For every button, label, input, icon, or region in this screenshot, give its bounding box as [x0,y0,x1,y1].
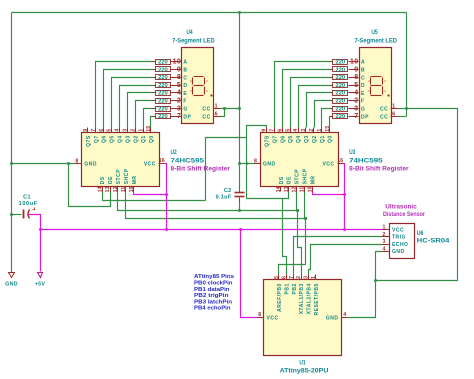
svg-text:220: 220 [336,67,346,73]
svg-text:1: 1 [215,104,218,110]
wire GND to C1 [12,214,22,216]
sensor U6 HC-SR04 ultrasonic [382,224,415,259]
wire U2 Q3 to resistor [128,93,153,128]
svg-text:3: 3 [354,105,358,112]
wire U3 Q2 to resistor [315,101,331,128]
svg-text:Q3: Q3 [304,135,310,143]
wire C2 to STCP rail [239,202,241,211]
svg-text:11: 11 [121,187,127,193]
svg-text:3: 3 [177,105,181,112]
svg-text:CC: CC [380,107,388,113]
svg-text:3: 3 [383,239,386,245]
svg-text:6: 6 [277,129,283,132]
svg-text:220: 220 [158,106,168,112]
wire U3 Q3 to resistor [307,93,331,128]
svg-text:1: 1 [317,129,323,132]
svg-text:220: 220 [158,99,168,105]
svg-text:7: 7 [270,129,276,132]
svg-text:13: 13 [105,186,111,192]
svg-text:PB4 echoPin: PB4 echoPin [194,306,231,312]
svg-text:220: 220 [336,91,346,97]
svg-text:D: D [361,83,365,89]
svg-text:220: 220 [336,60,346,66]
display U4 7-Segment LED [182,48,221,124]
svg-text:XTAL1/PB3: XTAL1/PB3 [299,283,305,314]
wire U3 Q4 to resistor [299,86,331,128]
svg-text:Q2: Q2 [133,135,139,143]
svg-text:DP: DP [361,114,369,120]
svg-text:F: F [361,99,365,105]
svg-text:220: 220 [336,99,346,105]
svg-text:1: 1 [392,104,395,110]
junction GND drop / U3 GND [238,162,241,165]
svg-text:74HC595: 74HC595 [171,157,205,164]
svg-text:5: 5 [107,129,113,132]
svg-text:9: 9 [83,129,89,132]
svg-text:A: A [361,60,365,66]
svg-text:220: 220 [336,106,346,112]
note text ATtiny85 pin assignments [194,274,234,312]
svg-text:0.1uF: 0.1uF [216,195,232,201]
svg-text:MR: MR [310,176,316,185]
svg-text:U4: U4 [186,29,193,36]
wire U5 CC pin6 to GND drop [399,116,407,118]
svg-text:Q5: Q5 [110,135,116,143]
svg-text:3: 3 [123,129,129,132]
svg-text:SHCP: SHCP [303,168,309,184]
wire U3 Q7 to resistor [275,62,331,128]
wire U4 CC pin6 tie [221,109,225,117]
svg-text:STCP: STCP [116,169,122,185]
svg-text:1: 1 [311,276,317,279]
power symbol GND [9,273,15,278]
svg-text:11: 11 [300,187,306,193]
svg-text:ECHO: ECHO [392,242,408,248]
svg-text:ATtiny85-20PU: ATtiny85-20PU [280,368,329,375]
svg-text:F: F [183,99,187,105]
wire +5V to U2 VCC pin16 [165,164,167,230]
svg-text:1: 1 [138,129,144,132]
wire U3 GND pin to GND drop [240,163,255,165]
resistor R5 220 [153,91,182,97]
svg-text:PB2 trigPin: PB2 trigPin [194,293,229,299]
svg-text:U3: U3 [349,149,356,156]
junction VCC rail / ATtiny riser [239,228,242,231]
wire U2 Q6 to resistor [104,70,153,128]
wire U3 Q1 to resistor [322,109,331,128]
svg-text:4: 4 [354,90,358,97]
resistor R27 220 [331,106,359,112]
svg-text:C: C [183,75,187,81]
wire U3 Q6 to resistor [283,70,331,128]
svg-text:7: 7 [354,113,358,120]
svg-text:220: 220 [158,67,168,73]
svg-text:6: 6 [282,276,288,279]
svg-text:C2: C2 [224,188,232,194]
junction GND rail / OE tie [67,162,70,165]
svg-text:14: 14 [276,186,282,192]
power symbol +5V [38,273,43,278]
resistor R8 220 [153,114,182,121]
svg-text:4: 4 [343,312,346,318]
wire U2 Q7 to resistor [96,62,153,128]
svg-text:U1: U1 [299,359,306,366]
svg-text:12: 12 [292,186,298,192]
capacitor C1 100uF polarized [24,208,36,219]
junction C2 / latch rail [238,209,241,212]
svg-text:15: 15 [146,126,152,132]
wire GND tie to U2 OE [69,164,111,207]
wire +5V from C1 down to +5V symbol [29,215,41,272]
svg-text:B: B [361,68,365,74]
svg-text:DS: DS [279,176,285,184]
svg-text:9: 9 [262,129,268,132]
svg-text:STCP: STCP [295,169,301,185]
junction data branch crossing [246,162,248,164]
wire +5V down to ATtiny VCC [241,230,258,318]
svg-text:5: 5 [177,82,181,89]
svg-text:10: 10 [129,186,135,192]
svg-text:7: 7 [91,129,97,132]
wire GND left border [11,13,13,273]
svg-text:OE: OE [287,176,293,184]
svg-text:GND: GND [84,162,97,168]
wire data down to ATtiny PB1 [283,199,287,275]
wire GND top border [12,12,407,14]
svg-text:D: D [183,83,187,89]
svg-text:C: C [361,75,365,81]
svg-text:XTAL2/PB4: XTAL2/PB4 [307,283,313,314]
wire latch rail down to ATtiny PB3 [298,211,302,275]
svg-text:4: 4 [383,246,386,252]
svg-text:U6: U6 [417,230,424,237]
wire GND middle drop to C2 [239,13,241,193]
svg-text:5: 5 [354,82,358,89]
svg-text:16: 16 [337,158,343,164]
svg-text:5: 5 [285,129,291,132]
resistor R7 220 [153,106,182,112]
svg-text:+5V: +5V [35,282,46,288]
svg-text:8-Bit Shift Register: 8-Bit Shift Register [171,167,231,173]
svg-text:PB1 dataPin: PB1 dataPin [194,287,230,293]
wire +5V tie to U3 MR [313,192,345,195]
svg-text:220: 220 [158,75,168,81]
resistor R1 220 [153,60,182,66]
svg-text:VCC: VCC [144,162,156,168]
wire U2 Q5 to resistor [112,78,153,128]
wire GND right side down to bottom [376,109,458,281]
resistor R22 220 [331,67,359,74]
svg-text:AREF/PB0: AREF/PB0 [277,283,283,312]
wire U5 CC pin1 to GND drop [399,108,407,110]
svg-text:RESET/PB5: RESET/PB5 [314,283,320,315]
wire U2 Q0 to resistor [151,117,153,128]
svg-text:Q6: Q6 [280,135,286,143]
svg-text:Ultrasonic: Ultrasonic [385,204,417,210]
svg-text:GND: GND [326,316,339,322]
junction GND left border / U2 GND rail [10,162,13,165]
svg-text:6: 6 [215,111,218,117]
svg-text:VCC: VCC [267,316,279,322]
svg-text:VCC: VCC [322,162,334,168]
svg-text:2: 2 [383,232,386,238]
svg-text:220: 220 [158,60,168,66]
svg-text:4: 4 [115,129,121,132]
svg-text:3: 3 [301,129,307,132]
svg-text:8: 8 [177,74,181,81]
svg-text:E: E [361,91,365,97]
svg-text:G: G [183,107,187,113]
svg-text:GND: GND [392,249,405,255]
svg-text:GND: GND [263,162,276,168]
wire +5V horizontal rail [41,229,382,231]
svg-text:PB0 clockPin: PB0 clockPin [194,281,233,287]
svg-text:G: G [361,107,365,113]
junction +5V rail / +5V symbol [39,228,42,231]
svg-text:100uF: 100uF [19,201,38,207]
svg-text:7-Segment LED: 7-Segment LED [172,39,215,45]
svg-text:3: 3 [304,276,310,279]
junction clock rail / U3 SHCP [304,217,307,220]
svg-text:Q0: Q0 [328,135,334,143]
svg-text:DS: DS [100,176,106,184]
junction U2 MR tie / VCC riser [165,193,168,196]
svg-text:CC: CC [202,107,210,113]
svg-text:4: 4 [177,90,181,97]
svg-text:CC: CC [202,114,210,120]
svg-text:220: 220 [336,83,346,89]
svg-text:220: 220 [336,114,346,120]
field Ultrasonic Distance Sensor of U6 [383,204,426,218]
svg-text:Q0: Q0 [149,135,155,143]
svg-text:8: 8 [258,312,261,318]
junction GND left border / C1 [10,213,13,216]
svg-text:5: 5 [274,276,280,279]
svg-text:Q1: Q1 [320,135,326,143]
junction latch rail / U3 STCP / PB3 [296,209,299,212]
resistor R26 220 [331,99,359,105]
svg-text:7: 7 [289,276,295,279]
svg-text:220: 220 [158,114,168,120]
svg-text:ATtiny85 Pins: ATtiny85 Pins [194,274,234,280]
svg-text:Q5: Q5 [288,135,294,143]
resistor R3 220 [153,75,182,82]
wire +5V to U3 VCC pin16 [344,164,345,230]
svg-text:6: 6 [392,111,395,117]
svg-text:2: 2 [177,98,181,105]
svg-text:Q7S: Q7S [265,135,271,147]
svg-text:Q6: Q6 [102,135,108,143]
svg-text:Q1: Q1 [141,135,147,143]
svg-text:PB3 latchPin: PB3 latchPin [194,299,233,305]
svg-text:Q3: Q3 [125,135,131,143]
wire U2 Q1 to resistor [144,109,153,128]
svg-text:8-Bit Shift Register: 8-Bit Shift Register [349,167,409,173]
wire U4 CC pin1 to GND drop [221,108,240,110]
svg-text:Q7: Q7 [94,135,100,143]
wire clock rail down to ATtiny PB0 [279,219,306,275]
wire latchPin net U2 STCP rail [118,192,298,211]
svg-text:Distance Sensor: Distance Sensor [383,212,426,218]
svg-text:220: 220 [336,75,346,81]
svg-text:Q4: Q4 [296,135,302,143]
IC U3 74HC595 8-bit shift register [255,128,344,192]
svg-text:SHCP: SHCP [124,168,130,184]
junction U5 CC / GND right drop [405,107,408,110]
7-segment digit glyph of U5 [371,77,383,96]
svg-text:7: 7 [177,113,181,120]
svg-text:PB2: PB2 [292,283,298,294]
svg-text:4: 4 [293,129,299,132]
wire data branch to U3 Q7S [247,126,267,199]
wire U3 STCP riser [296,192,298,211]
junction GND top border / middle drop [238,11,241,14]
svg-text:PB1: PB1 [284,283,290,294]
svg-text:14: 14 [97,186,103,192]
svg-text:MR: MR [132,176,138,185]
resistor R2 220 [153,67,182,74]
wire U3 SHCP riser [304,192,306,219]
svg-text:A: A [183,60,187,66]
svg-text:8: 8 [354,74,358,81]
svg-text:12: 12 [113,186,119,192]
junction U4 CC pins [223,107,226,110]
resistor R4 220 [153,83,182,89]
7-segment digit glyph of U4 [193,77,205,96]
resistor R21 220 [331,60,359,66]
wire GND to ATtiny pin4 [348,281,376,318]
junction GND bottom right [374,279,377,282]
wire +5V tie to U2 MR [134,192,167,195]
svg-text:8: 8 [75,158,78,164]
MCU U1 ATtiny85-20PU [258,275,348,356]
svg-text:220: 220 [158,91,168,97]
svg-text:2: 2 [296,276,302,279]
wire data branch to U3 OE stub [247,192,289,199]
wire echoPin U6 ECHO to ATtiny PB4 [309,245,382,275]
svg-text:1: 1 [383,225,386,231]
svg-text:Q7: Q7 [272,135,278,143]
svg-text:2: 2 [354,98,358,105]
svg-text:VCC: VCC [392,227,404,233]
svg-text:Q4: Q4 [118,135,124,143]
svg-text:Q7S: Q7S [86,135,92,147]
svg-text:13: 13 [284,186,290,192]
svg-text:10: 10 [308,186,314,192]
svg-text:220: 220 [158,83,168,89]
svg-text:OE: OE [108,176,114,184]
wire U2 Q2 to resistor [136,101,153,128]
svg-text:6: 6 [99,129,105,132]
wire data branch up and over [206,138,247,201]
wire clockPin net U2 SHCP rail [126,192,306,219]
wire trigPin U6 TRIG to ATtiny PB2 [294,237,382,275]
wire dataPin net from U2 DS [103,192,206,201]
svg-text:DP: DP [183,114,191,120]
svg-text:9: 9 [354,66,358,73]
junction U4 CC / GND drop [238,107,241,110]
resistor R6 220 [153,99,182,105]
svg-text:74HC595: 74HC595 [349,157,383,164]
svg-text:TRIG: TRIG [392,235,406,241]
svg-text:2: 2 [309,129,315,132]
svg-text:B: B [183,68,187,74]
resistor R28 220 [331,114,359,121]
junction VCC rail / U2 riser [165,228,168,231]
svg-text:HC-SR04: HC-SR04 [417,237,450,244]
svg-text:GND: GND [5,282,18,288]
capacitor C2 0.1uF [235,193,245,202]
junction VCC rail / U3 riser [343,228,346,231]
resistor R25 220 [331,91,359,97]
svg-text:7-Segment LED: 7-Segment LED [354,39,397,45]
svg-text:9: 9 [177,66,181,73]
svg-text:E: E [183,91,187,97]
wire GND right drop to U5 CC [406,13,408,117]
resistor R23 220 [331,75,359,82]
svg-text:10: 10 [350,59,359,66]
wire GND rail to U2 pin 8 [12,163,76,165]
svg-text:16: 16 [159,158,165,164]
IC U2 74HC595 8-bit shift register [76,128,165,192]
svg-text:10: 10 [173,59,182,66]
svg-text:U5: U5 [371,29,378,36]
display U5 7-Segment LED [360,48,399,124]
wire U3 Q0 to resistor [330,117,331,128]
wire U3 Q5 to resistor [291,78,331,128]
wire U6 GND down [376,252,382,281]
svg-text:C1: C1 [23,195,31,201]
resistor R24 220 [331,83,359,89]
wire U2 Q4 to resistor [120,86,153,128]
svg-text:U2: U2 [171,149,178,156]
svg-text:CC: CC [380,114,388,120]
junction U3 MR tie / VCC riser [343,193,346,196]
svg-text:2: 2 [130,129,136,132]
svg-text:Q2: Q2 [312,135,318,143]
